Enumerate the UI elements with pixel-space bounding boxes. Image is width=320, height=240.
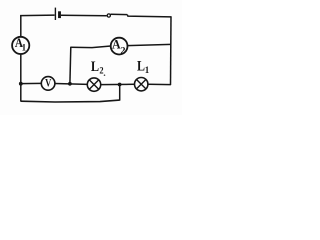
wire: junction to voltmeter (21, 82, 42, 84)
switch pivot (107, 14, 110, 17)
wire: L2 to L1 (101, 83, 135, 85)
wire: riser from bottom wire to lamp junction (119, 84, 121, 100)
svg-text:1: 1 (145, 65, 150, 75)
wire: voltmeter to lamp L2 (55, 83, 88, 86)
wire: left vertical lower (A1 to bottom-left corner) (20, 54, 22, 102)
battery long plate (positive) (54, 8, 56, 20)
svg-text:2: 2 (99, 67, 103, 77)
junction dot at lamp row (118, 83, 122, 87)
wire: top-left horizontal (corner to battery) (21, 15, 55, 16)
svg-text:L: L (91, 59, 99, 75)
wire: A2 branch horizontal right (128, 44, 171, 45)
wire: A2 branch horizontal left (70, 46, 110, 48)
svg-text:V: V (45, 76, 51, 90)
ammeter A2 (111, 38, 128, 55)
lamp L2 (87, 78, 100, 91)
wire: left vertical upper (corner to ammeter A1) (20, 16, 22, 37)
svg-text:L: L (137, 58, 145, 74)
svg-text:2: 2 (121, 46, 126, 56)
ink speck (scan artifact) (104, 74, 106, 76)
wire: battery to switch (61, 14, 107, 17)
wire: right vertical (170, 16, 173, 85)
svg-text:1: 1 (22, 43, 27, 53)
ammeter A1 (12, 37, 29, 54)
junction dot on left wire (19, 82, 23, 86)
wire: A2 branch left vertical (69, 47, 72, 84)
battery short thick plate (negative) (58, 11, 61, 18)
wire: bottom horizontal (21, 100, 120, 102)
voltmeter V (41, 77, 55, 91)
switch lever (111, 13, 128, 15)
wire: L1 to right wire (148, 83, 171, 85)
wire: switch to top-right corner (127, 15, 171, 17)
lamp L1 (135, 78, 148, 91)
junction dot below A2 branch (68, 82, 72, 86)
